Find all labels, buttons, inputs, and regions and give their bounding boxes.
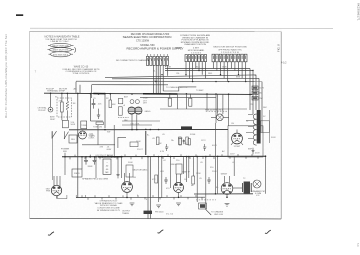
junction dots [77, 81, 251, 198]
tube-base diagram B2 [48, 47, 76, 52]
relay box K1 [69, 135, 77, 143]
svg-text:SEC: SEC [263, 107, 268, 109]
power supply box [228, 126, 263, 157]
svg-text:6SA7: 6SA7 [143, 97, 149, 100]
wire v121 [121, 157, 123, 178]
svg-text:1M: 1M [73, 103, 76, 105]
wire bundle from SW1 [154, 65, 168, 93]
wire v205 [205, 157, 207, 210]
svg-text:CHANGER POSITION: CHANGER POSITION [184, 43, 206, 46]
small parts row y134-150 [130, 137, 188, 147]
svg-text:AC: AC [73, 87, 76, 90]
wire v269 [268, 110, 270, 143]
rectangle right of T2 [261, 121, 270, 133]
switch bank SW3 inner marks [213, 56, 245, 59]
svg-text:117V: 117V [259, 88, 264, 90]
pilot tube V0 [79, 131, 87, 139]
wire v96 [95, 157, 97, 178]
svg-text:PRI: PRI [250, 104, 254, 106]
svg-text:GRN: GRN [222, 67, 227, 69]
margin caption (left, rotated) [4, 34, 8, 118]
switch bank SW1 ticks [148, 54, 168, 56]
filter cap C3 [93, 157, 97, 165]
wire v215 pair [215, 123, 217, 194]
tube-base diagram B1 [48, 43, 74, 47]
svg-text:PILOT: PILOT [137, 149, 144, 151]
check mark 3 [265, 230, 271, 233]
svg-text:5-6: 5-6 [356, 243, 360, 247]
bold vertical v145 [145, 131, 147, 155]
wire right-side drops [250, 69, 262, 121]
crystal pickup P1 [37, 107, 52, 112]
misc labels bottom band [133, 171, 246, 201]
rectifier V5 [231, 130, 243, 146]
dark label blob [144, 211, 153, 214]
bus C [62, 155, 266, 158]
svg-text:PRI 2500: PRI 2500 [155, 211, 164, 213]
wire input drops [62, 93, 68, 120]
svg-text:SW: SW [259, 98, 262, 100]
paper grain [30, 28, 282, 219]
misc labels T1 cluster [124, 96, 151, 122]
svg-text:NO CONNECTION TO CHANGER: NO CONNECTION TO CHANGER [116, 59, 149, 62]
wire v80 [79, 85, 81, 94]
cap row above bus C [165, 144, 206, 151]
capacitor C7 [97, 112, 100, 119]
svg-text:TONE CONTROL: TONE CONTROL [72, 73, 90, 75]
svg-text:6.3V: 6.3V [160, 151, 165, 153]
tube V2 [122, 173, 133, 197]
wire v186b [186, 157, 188, 182]
terminal boxes column [252, 86, 258, 100]
wire v90 [90, 94, 92, 121]
svg-text:LINE AT 117 V.A.C.: LINE AT 117 V.A.C. [51, 40, 70, 43]
power box labels [230, 149, 260, 156]
frame border bottom [30, 217, 282, 220]
switch row S2 [52, 131, 69, 139]
svg-text:ARM: ARM [50, 115, 55, 118]
svg-text:6X5 35Z5 50L6: 6X5 35Z5 50L6 [53, 54, 69, 56]
junction dots extra [61, 70, 266, 198]
svg-text:BLK: BLK [196, 67, 200, 69]
wire stubs bus C [70, 154, 258, 159]
svg-text:TO CHANGER MOTOR: TO CHANGER MOTOR [166, 86, 188, 89]
svg-text:TERMINAL STRIP: TERMINAL STRIP [47, 90, 66, 93]
wire v193 [193, 157, 195, 176]
svg-text:TRANS: TRANS [122, 212, 129, 215]
svg-text:SELECTOR SWITCH POSITIONS: SELECTOR SWITCH POSITIONS [213, 46, 247, 48]
wire v76 [75, 82, 77, 94]
wire v183 [183, 157, 185, 174]
wire v190 [189, 94, 191, 98]
title block [123, 33, 184, 51]
svg-text:REST: REST [50, 119, 56, 121]
svg-text:8K23566171: 8K23566171 [357, 3, 360, 21]
svg-text:FIELD: FIELD [74, 173, 80, 175]
bus B [69, 128, 228, 130]
svg-text:60CY: 60CY [212, 145, 218, 147]
wire drops from SW2 [186, 62, 205, 82]
dashed line y199 [196, 199, 216, 201]
wire v228 [228, 94, 230, 126]
misc labels mid band [137, 104, 276, 153]
wire v265 [265, 156, 267, 194]
svg-text:SPEAKER FIELD 450 OHM: SPEAKER FIELD 450 OHM [82, 178, 108, 181]
svg-text:SW: SW [107, 132, 110, 134]
svg-text:220K: 220K [196, 173, 201, 175]
svg-text:PICKUP: PICKUP [38, 110, 46, 112]
output transformer T3 [242, 182, 251, 194]
switch bank SW2 inner marks [186, 56, 205, 59]
wire v167 [169, 94, 171, 98]
capacitor C5 [164, 177, 168, 184]
svg-text:GND LUG: GND LUG [214, 214, 224, 216]
wire v177 [176, 94, 178, 109]
tube-base diagram B3 [49, 52, 74, 57]
tone pot R4 [81, 121, 87, 129]
wire v170 [170, 157, 172, 188]
svg-text:FOR 45 RPM ONLY: FOR 45 RPM ONLY [205, 110, 224, 112]
wire stubs bus D [82, 195, 202, 200]
wire v234 [233, 156, 235, 176]
svg-text:TONE: TONE [81, 125, 87, 127]
wire v82b [81, 157, 83, 169]
bus A2 [140, 96, 216, 98]
choke box L1 [72, 169, 82, 177]
bottom left labels [122, 210, 224, 216]
frame border left [29, 31, 31, 218]
power transformer T2 core [253, 110, 262, 145]
wire v78 long [77, 93, 79, 197]
wire v52 [52, 131, 54, 180]
svg-text:S600M: S600M [175, 47, 182, 49]
dark cluster bottom [199, 203, 212, 215]
svg-text:1MEG: 1MEG [170, 164, 176, 166]
resistor R8 [192, 176, 195, 184]
svg-text:5Y3GT: 5Y3GT [234, 146, 241, 148]
svg-text:4-1/2: 4-1/2 [281, 62, 287, 65]
misc labels ladder [153, 67, 241, 93]
wire v216 pair [215, 94, 217, 123]
svg-text:500K: 500K [128, 162, 133, 164]
capacitor C6 [207, 177, 211, 184]
switch bank SW1 contacts [146, 56, 168, 65]
wire v114 [113, 125, 115, 157]
node dots on bus C [89, 156, 122, 158]
input transformer T1 [118, 97, 149, 130]
wire v118b [117, 157, 119, 172]
bus A [44, 93, 252, 94]
resistor R10 [96, 122, 103, 125]
wire v110 [109, 94, 111, 100]
svg-text:1 2 3 4 5 6: 1 2 3 4 5 6 [191, 52, 202, 54]
parts list text block [63, 66, 100, 75]
wire ladder right [76, 69, 262, 85]
svg-text:TO AMP: TO AMP [196, 89, 204, 92]
wire pair to bottom [147, 157, 149, 219]
svg-text:PAD: PAD [124, 119, 129, 122]
check mark 1 [48, 232, 54, 235]
bus E [194, 193, 253, 195]
wire drops from SW3 [213, 62, 245, 82]
svg-text:115V: 115V [230, 154, 235, 156]
wire v91 corner [91, 85, 93, 98]
transformer lead stubs [246, 115, 253, 139]
svg-text:6SQ7 6SA7 6V6: 6SQ7 6SA7 6V6 [52, 44, 69, 47]
switch bank SW2 header [188, 48, 205, 55]
wire h91 [163, 87, 196, 91]
wire v98b [97, 125, 99, 145]
check mark 2 [158, 230, 164, 233]
capacitor C1 [92, 99, 96, 109]
svg-text:500K: 500K [71, 124, 76, 126]
svg-text:300V: 300V [271, 137, 276, 139]
svg-text:117V: 117V [201, 140, 206, 142]
instruction note paragraph [180, 34, 211, 46]
svg-text:SW.: SW. [63, 151, 67, 153]
bus A thick segment left [93, 93, 105, 95]
wire mid [160, 108, 247, 110]
svg-text:V.C.: V.C. [256, 195, 260, 197]
switch bank SW1 inner marks [148, 58, 169, 61]
svg-text:600V: 600V [107, 149, 112, 151]
svg-text:BRN: BRN [236, 77, 241, 79]
wire v158 [158, 157, 160, 202]
electrolytic can C4 [103, 159, 111, 174]
component labels mid [128, 138, 236, 181]
wire h112 [91, 120, 104, 122]
resistor R6 [189, 98, 192, 106]
resistor R1 [61, 102, 64, 112]
motor M1 [211, 114, 229, 121]
svg-text:V.C. 3.2: V.C. 3.2 [166, 214, 174, 216]
wire v188b [188, 157, 190, 178]
resistor R9 [109, 100, 112, 108]
wire v186 [185, 94, 187, 109]
top rule [30, 27, 333, 29]
wire v105 [104, 94, 106, 128]
svg-text:GANG: GANG [145, 110, 151, 113]
operation note block [95, 200, 123, 212]
wire v117 [117, 137, 119, 148]
svg-text:FIG. 8: FIG. 8 [277, 44, 281, 52]
svg-text:CONT.: CONT. [88, 137, 94, 139]
dashes below T1 [118, 116, 129, 118]
tube V3 [174, 174, 184, 197]
svg-text:Rio-ITC Croftsfisher LW5-ime/W: Rio-ITC Croftsfisher LW5-ime/Wayne 300 (… [4, 34, 8, 118]
svg-text:RED: RED [208, 73, 213, 75]
svg-text:OFF PHONO RADIO TEL: OFF PHONO RADIO TEL [218, 49, 243, 52]
svg-text:FUSE: FUSE [190, 134, 196, 136]
misc labels left mid [50, 96, 116, 133]
capacitor C8 [116, 172, 119, 178]
margin dash mark [16, 14, 23, 16]
dark component on bus B [181, 126, 192, 129]
svg-text:SEARS ELECTRIC CORPORATION: SEARS ELECTRIC CORPORATION [123, 35, 172, 39]
volume pot R3 [63, 120, 69, 128]
grounds [130, 203, 230, 208]
switch bank SW2 contacts [185, 55, 207, 62]
svg-text:TONE 2M: TONE 2M [93, 127, 102, 129]
wire h144 [82, 144, 115, 146]
wire v161 [161, 157, 163, 198]
svg-text:AT MINIMUM LINE 117V: AT MINIMUM LINE 117V [97, 209, 120, 212]
labels tone section [88, 135, 113, 157]
wire h137 [118, 136, 126, 138]
bus C thick segment [98, 156, 122, 158]
svg-text:20MF: 20MF [87, 166, 93, 168]
node pickup bus [50, 93, 52, 95]
switch bank SW3 contacts [212, 54, 247, 62]
bus D [76, 196, 205, 198]
wire v207 [206, 94, 208, 111]
short bus y125 [122, 124, 152, 126]
resistor R5 [168, 98, 171, 106]
speaker SP1 [253, 180, 261, 188]
bus A thick segment [143, 93, 178, 95]
preamp tube V1 [51, 176, 61, 199]
wire v197 [196, 157, 198, 202]
dashed callout 45rpm [206, 110, 228, 112]
svg-text:PRE: PRE [46, 191, 51, 193]
frame border right [280, 32, 282, 219]
svg-text:250K: 250K [212, 171, 217, 173]
filter cap C2 [84, 157, 88, 165]
tube V4 output [221, 176, 242, 197]
svg-text:1M: 1M [133, 177, 136, 179]
svg-text:CTS 1200W: CTS 1200W [136, 40, 150, 43]
resistor R2 [66, 101, 69, 110]
wire v65 [64, 153, 66, 175]
tube-base table header [45, 35, 80, 43]
wire v98 [98, 109, 100, 112]
wire pickup to bus [50, 93, 52, 107]
switch bank SW3 header [213, 46, 247, 54]
RC cluster parallel [179, 139, 190, 145]
wire v222 [222, 94, 224, 114]
short bus y121 [122, 120, 160, 122]
svg-text:450V: 450V [255, 152, 260, 154]
svg-text:6SQ7 DET-AVC: 6SQ7 DET-AVC [133, 169, 148, 172]
frame border top [30, 30, 282, 32]
capacitor C10 [252, 148, 255, 155]
resistor R7 [155, 175, 158, 183]
boxes below bus C [126, 165, 133, 177]
dashed input enclosure [57, 98, 72, 117]
svg-text:6V6GT: 6V6GT [221, 173, 228, 175]
wire stub box [58, 195, 67, 199]
pickup labels [46, 87, 77, 92]
